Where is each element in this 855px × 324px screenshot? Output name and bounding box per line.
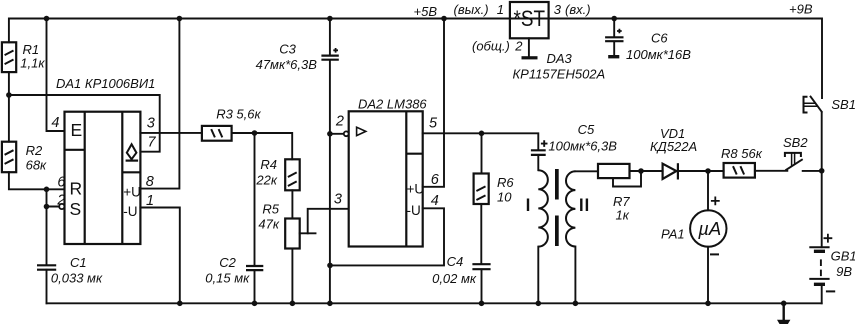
wire +5V to C3 (329, 19, 331, 55)
svg-text:+5В: +5В (414, 4, 438, 19)
capacitor C4 (472, 264, 490, 269)
svg-text:0,02 мк: 0,02 мк (432, 271, 477, 286)
wire node A to DA1 pin7 (9, 95, 160, 152)
trimmer R7 (598, 164, 630, 178)
wire DA1 pin3 to R3 (140, 132, 202, 134)
svg-text:68к: 68к (26, 158, 47, 173)
pin numbers DA1 (51, 115, 156, 209)
wire C3 to common with DA2 pin2 node (329, 61, 331, 304)
regulator DA3 box (510, 2, 549, 38)
wire VD1 to R8 (678, 170, 724, 172)
svg-text:C2: C2 (219, 255, 236, 270)
svg-text:6: 6 (431, 172, 440, 188)
op-amp U DA1 body (65, 112, 141, 244)
svg-text:2: 2 (335, 114, 344, 130)
wire R4 to R5 (291, 190, 293, 218)
wire pin2 stub (330, 133, 344, 135)
svg-text:10: 10 (497, 190, 512, 205)
svg-text:1к: 1к (616, 208, 630, 223)
wire C1 to bottom rail (46, 270, 48, 304)
svg-text:КР1157ЕН502А: КР1157ЕН502А (513, 67, 606, 82)
svg-text:C1: C1 (70, 255, 87, 270)
trimmer R5 (285, 219, 300, 249)
wire R7 to VD1 (630, 170, 663, 172)
capacitor C3 (321, 48, 338, 60)
svg-text:C5: C5 (578, 122, 595, 137)
wire R5 wiper bar (300, 232, 316, 234)
svg-text:7: 7 (148, 134, 157, 150)
plus mark PA1 (711, 197, 720, 206)
winding mark II (581, 199, 587, 212)
wire DA2 pin5 to C5 (423, 133, 539, 149)
svg-text:5: 5 (429, 116, 438, 132)
wire R2 bottom to DA1 pin6 (9, 172, 65, 189)
svg-text:1: 1 (497, 2, 504, 17)
inversion circle DA2 pin2 (344, 131, 349, 136)
capacitor C6 (605, 29, 623, 59)
svg-text:1: 1 (146, 193, 154, 209)
wire node to C2 (254, 133, 256, 265)
svg-text:100мк*6,3В: 100мк*6,3В (548, 138, 617, 153)
resistor R6 (474, 174, 489, 205)
svg-text:3: 3 (147, 115, 155, 131)
svg-text:S: S (70, 199, 82, 219)
svg-text:-U: -U (123, 204, 137, 219)
svg-text:R8 56к: R8 56к (721, 146, 763, 161)
wire R7 wiper loop (613, 171, 641, 187)
svg-text:(вх.): (вх.) (565, 2, 591, 17)
transformer T primary winding (538, 170, 548, 246)
svg-text:PA1: PA1 (661, 227, 685, 242)
svg-text:+U: +U (123, 185, 141, 200)
wire node to C1 (46, 207, 48, 266)
svg-text:R: R (70, 179, 83, 199)
resistor R4 (285, 159, 300, 190)
diode VD1 (663, 163, 678, 179)
wire SB2 to right bus (803, 170, 822, 172)
op-amp U DA2 body (349, 111, 423, 246)
common bar DA3 pin2 (522, 56, 538, 59)
wire R1 to R2 through node (8, 72, 10, 142)
wire bottom common rail (47, 302, 822, 304)
svg-text:GB1: GB1 (831, 249, 855, 264)
svg-text:R4: R4 (260, 157, 277, 172)
svg-text:DA1 КР1006ВИ1: DA1 КР1006ВИ1 (56, 76, 155, 91)
wire C6 lower lead (613, 42, 615, 55)
svg-text:0,033 мк: 0,033 мк (51, 271, 103, 286)
svg-text:(общ.): (общ.) (472, 39, 510, 54)
transformer core (555, 169, 559, 200)
wire node to PA1 plus (707, 171, 709, 210)
wire DA2 pin6 to +5V (423, 19, 444, 187)
svg-text:+9В: +9В (789, 2, 813, 17)
svg-text:6: 6 (57, 174, 66, 190)
svg-text:R2: R2 (26, 143, 43, 158)
capacitor C1 (37, 265, 56, 269)
wire T1 secondary top to R7 (575, 170, 598, 172)
wire pin5 node to R6 (481, 133, 483, 173)
svg-text:C4: C4 (447, 254, 464, 269)
inversion circle DA1 pin2 S (59, 204, 64, 209)
minus mark GB1 (826, 290, 835, 292)
wire rail to C6 (613, 19, 615, 37)
winding mark I (527, 199, 529, 212)
svg-text:*ST: *ST (514, 6, 546, 31)
svg-text:µА: µА (697, 218, 721, 239)
wire node pins 6-2 (47, 189, 60, 206)
minus mark PA1 (710, 253, 719, 255)
svg-text:DA3: DA3 (547, 51, 573, 66)
wire DA1 pin1 to common (140, 208, 179, 304)
svg-text:9В: 9В (836, 264, 852, 279)
svg-text:47мк*6,3В: 47мк*6,3В (256, 57, 318, 72)
svg-text:100мк*16В: 100мк*16В (626, 47, 691, 62)
meter PA1 (690, 210, 726, 246)
svg-text:-U: -U (407, 203, 421, 218)
wire DA2 pin4 to common (330, 208, 444, 265)
wire R5 wiper to DA2 pin3 (308, 209, 348, 234)
wire DA3 pin2 lead (528, 38, 530, 56)
svg-text:3: 3 (334, 191, 342, 207)
ground symbol (783, 303, 785, 320)
transformer T secondary winding (566, 171, 575, 246)
resistor R2 (2, 142, 16, 173)
resistor R1 (2, 42, 16, 72)
svg-text:2: 2 (56, 192, 65, 208)
svg-text:R3 5,6к: R3 5,6к (216, 106, 261, 121)
svg-text:4: 4 (431, 193, 439, 209)
resistor R3 (202, 126, 232, 141)
wire R5 to bottom rail (291, 249, 293, 304)
wire C4 to bottom rail (481, 269, 483, 303)
svg-text:8: 8 (146, 174, 154, 190)
pushbutton SB1 (804, 96, 823, 113)
svg-text:(вых.): (вых.) (454, 2, 489, 17)
wire DA1 pin8 to +5V (140, 19, 179, 189)
svg-text:3: 3 (554, 2, 562, 17)
IC pin function labels DA2 (407, 182, 425, 218)
svg-text:47к: 47к (258, 217, 279, 232)
wire T1 primary bottom to rail (537, 247, 539, 304)
svg-text:C6: C6 (651, 30, 668, 45)
wire PA1 minus to rail (707, 247, 709, 304)
svg-text:22к: 22к (255, 173, 277, 188)
wire R8 to SB2 (755, 170, 787, 172)
svg-text:E: E (71, 120, 83, 140)
plus mark GB1 (824, 234, 833, 243)
amplifier triangle DA2 (357, 127, 366, 135)
wire +5V to DA1 pin4 (47, 19, 65, 132)
resistor R8 (724, 163, 755, 178)
capacitor C5 (531, 140, 548, 155)
svg-text:+U: +U (407, 182, 425, 197)
pin numbers DA2 (334, 114, 440, 210)
wire top +5V/+9V rail (9, 19, 822, 99)
wire SB1 to GB1 (821, 113, 823, 248)
wire C2 to bottom rail (254, 271, 256, 304)
wire GB1 minus to rail (821, 284, 823, 303)
capacitor C2 (246, 266, 263, 270)
svg-text:4: 4 (51, 115, 59, 131)
wire C5 to T1 primary (537, 156, 539, 170)
wire T1 secondary bottom to rail (574, 247, 576, 304)
svg-text:C3: C3 (279, 42, 296, 57)
svg-text:SB1: SB1 (831, 97, 855, 112)
open-collector diamond DA1 pin7 (126, 144, 139, 160)
wire R3 to R4 top (232, 133, 293, 159)
svg-text:DA2 LM386: DA2 LM386 (358, 97, 427, 112)
IC pin function labels DA1 (70, 120, 83, 219)
svg-text:0,15 мк: 0,15 мк (205, 271, 250, 286)
wire R6 to C4 (480, 204, 482, 264)
svg-text:R5: R5 (262, 202, 279, 217)
pushbutton SB2 (785, 153, 803, 170)
battery GB1 (809, 234, 835, 292)
svg-text:SB2: SB2 (783, 135, 808, 150)
svg-text:КД522А: КД522А (650, 139, 697, 154)
svg-text:2: 2 (514, 39, 523, 54)
svg-text:R6: R6 (497, 175, 514, 190)
svg-text:1,1к: 1,1к (20, 56, 45, 71)
